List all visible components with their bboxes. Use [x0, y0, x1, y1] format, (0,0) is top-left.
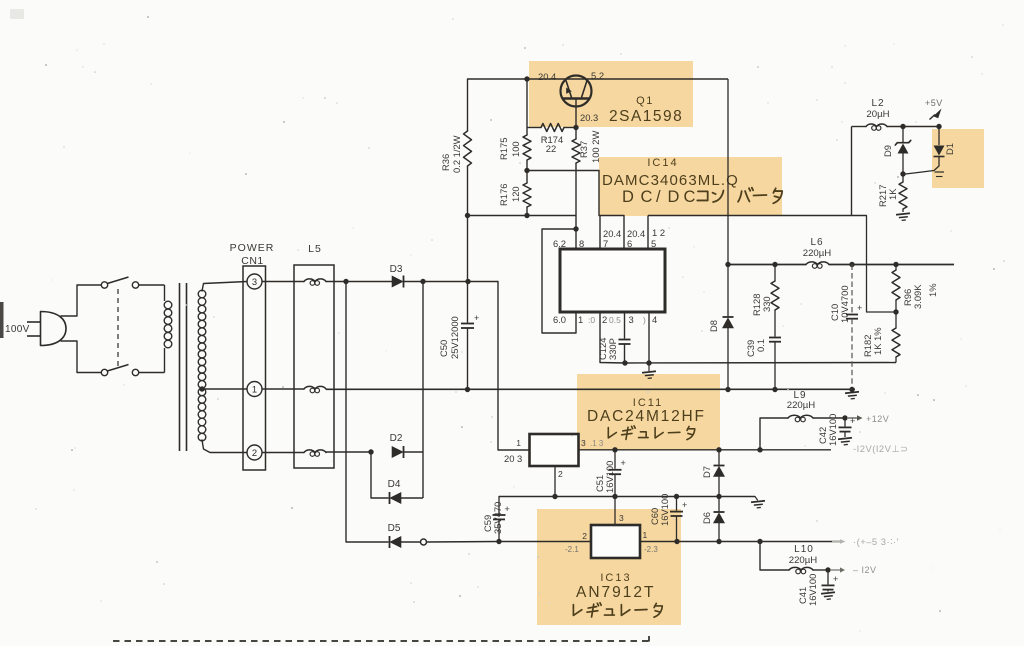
svg-text:AN7912T: AN7912T	[576, 584, 655, 601]
svg-text:R175: R175	[498, 138, 509, 160]
wire divider node to pins 7/6	[527, 171, 624, 216]
svg-text:1: 1	[643, 530, 648, 540]
transformer T1 core	[179, 283, 181, 451]
svg-text:): )	[643, 315, 646, 325]
wire Q1 base down	[575, 99, 577, 128]
wire main rail y389	[326, 388, 855, 390]
diode D2	[392, 447, 403, 458]
arrow +5V off-page	[930, 115, 936, 120]
svg-text:4: 4	[652, 314, 657, 325]
wire pin5 bracket to L2 corner	[648, 215, 867, 217]
svg-text:10V4700: 10V4700	[839, 285, 850, 323]
svg-text:1K: 1K	[887, 188, 898, 200]
svg-text:/: /	[656, 188, 661, 206]
inductor L9	[760, 418, 788, 450]
diode D8	[727, 265, 729, 317]
svg-text:+: +	[850, 416, 855, 426]
inductor L6	[806, 262, 829, 265]
highlight over Q1	[529, 61, 693, 127]
svg-text:0.2 1/2W: 0.2 1/2W	[451, 135, 462, 173]
transistor Q1 2SA1598	[561, 76, 592, 107]
junction C10 bottom	[849, 387, 854, 392]
junction D3 out x423	[420, 279, 425, 284]
svg-text:+: +	[857, 303, 862, 313]
svg-text:– I2V: – I2V	[853, 565, 877, 575]
junction R176 bottom	[524, 213, 529, 218]
wire gnd rail y363 to feedback divider	[625, 362, 896, 365]
power switch S1 lower pole	[77, 372, 101, 374]
svg-text:35V470: 35V470	[492, 502, 503, 534]
ground at C41	[821, 592, 836, 600]
wire switch to transformer primary	[164, 285, 166, 301]
junction +20V node C50	[465, 279, 470, 284]
junction C60 bottom	[674, 539, 679, 544]
svg-text:D: D	[668, 188, 680, 206]
svg-text:R37: R37	[578, 141, 589, 158]
wire x468 top to R36	[467, 79, 469, 131]
resistor R174	[527, 127, 541, 129]
ic IC14 body	[560, 249, 665, 312]
wire riser D2/D4 outputs x423	[422, 282, 424, 499]
svg-text:6.2: 6.2	[553, 238, 566, 249]
wire C39 to rail	[774, 342, 776, 390]
svg-text:R176: R176	[498, 184, 509, 206]
junction Q1 base node	[573, 125, 578, 130]
svg-text:0.5: 0.5	[609, 315, 621, 325]
junction C50 bottom	[465, 387, 470, 392]
choke L5 winding a	[304, 279, 326, 282]
faint arrow -20V rail end	[832, 541, 840, 543]
label regulator katakana IC13	[573, 603, 662, 617]
svg-text:330P: 330P	[607, 338, 618, 360]
junction C51 bottom	[612, 494, 617, 499]
wire -20V rail to C59	[427, 541, 500, 544]
junction R175/R176	[524, 168, 529, 173]
svg-text:IC14: IC14	[647, 157, 678, 169]
junction D6 bottom	[716, 539, 721, 544]
wire CN1-2 to L5	[262, 452, 304, 454]
wire IC11 pin2 down	[554, 466, 556, 497]
wire drop to D4	[371, 452, 388, 498]
svg-text:16V100: 16V100	[604, 461, 615, 493]
svg-text:20 3: 20 3	[504, 453, 522, 464]
diode D4	[390, 493, 401, 504]
junction C59 bottom	[496, 539, 501, 544]
dashed section boundary	[113, 640, 649, 642]
svg-text:2: 2	[558, 469, 563, 479]
resistor R182	[895, 312, 897, 328]
svg-text:+: +	[621, 458, 626, 468]
junction R96 top	[893, 262, 898, 267]
junction C10 top	[849, 262, 854, 267]
svg-text:1: 1	[516, 438, 521, 448]
junction C51 top	[612, 447, 617, 452]
svg-text:5: 5	[651, 238, 656, 249]
junction C41 top	[825, 567, 830, 572]
svg-text:1: 1	[252, 384, 257, 395]
highlight over IC11	[577, 374, 720, 450]
wire CN1-3 to L5	[262, 281, 304, 283]
junction R36 bottom	[465, 213, 470, 218]
svg-text:8: 8	[579, 238, 584, 249]
svg-text:5.2: 5.2	[591, 70, 604, 81]
svg-text:3: 3	[619, 513, 624, 523]
junction R128 top	[772, 262, 777, 267]
svg-text:R36: R36	[440, 154, 451, 171]
highlight over IC13	[537, 509, 681, 625]
svg-text:D4: D4	[388, 479, 401, 490]
wire feedback to pin5 net	[867, 216, 897, 313]
wire C124 to gnd rail	[624, 344, 626, 363]
svg-text:220µH: 220µH	[789, 555, 818, 566]
junction open node -20V	[421, 539, 427, 545]
wire plug to switch	[61, 285, 77, 316]
wire IC14 pin7 riser	[599, 216, 601, 250]
svg-text:3: 3	[581, 438, 586, 448]
svg-text:+12V: +12V	[866, 414, 889, 424]
svg-text:POWER: POWER	[230, 242, 275, 254]
wire +20V to IC11 pin1	[498, 282, 530, 451]
capacitor C41	[827, 570, 829, 584]
ic IC13 body	[591, 525, 640, 558]
wire secondary bottom tap to CN1-2	[202, 440, 247, 453]
svg-text:D2: D2	[390, 433, 403, 444]
wire secondary top tap to CN1-3	[202, 282, 247, 292]
ground at R217	[896, 213, 911, 221]
svg-text:220µH: 220µH	[787, 400, 816, 411]
wire row3 L5 to D3	[326, 281, 392, 283]
junction L9 tap	[757, 447, 762, 452]
wire Q1 collector drop x728	[727, 79, 729, 265]
transformer T1 secondary winding	[198, 290, 206, 298]
resistor R128	[774, 265, 776, 282]
capacitor C39	[769, 337, 781, 339]
junction row3 x346	[343, 279, 348, 284]
svg-text:L2: L2	[871, 98, 884, 109]
resistor R96	[895, 265, 897, 271]
diode D7	[718, 450, 720, 466]
svg-text:DAC24M12HF: DAC24M12HF	[587, 408, 706, 425]
svg-text:3: 3	[252, 276, 257, 287]
wire L2 riser	[851, 127, 853, 216]
svg-text:1%: 1%	[927, 283, 938, 297]
svg-text:-I2V(I2V⊥⊃: -I2V(I2V⊥⊃	[853, 443, 908, 454]
svg-text:1K 1%: 1K 1%	[872, 327, 883, 355]
diode D3	[392, 276, 403, 287]
svg-text:D5: D5	[388, 523, 401, 534]
junction C60 top	[674, 494, 679, 499]
svg-text:3.09K: 3.09K	[912, 284, 923, 309]
wire IC14 pin8 loop to pin1	[542, 229, 576, 333]
svg-text:6.0: 6.0	[553, 314, 566, 325]
svg-text:20.3: 20.3	[580, 112, 598, 123]
junction pin2/pin3	[622, 360, 627, 365]
svg-text:100 2W: 100 2W	[590, 131, 601, 163]
arrow -12V	[831, 569, 840, 571]
wire main output rail y264	[728, 264, 806, 266]
wire IC14 pin4	[648, 312, 650, 363]
capacitor C51	[614, 450, 616, 469]
capacitor C59	[498, 497, 500, 515]
capacitor C42	[844, 418, 846, 426]
junction D7 top	[716, 447, 721, 452]
wire row2 L5 to D2	[326, 451, 371, 453]
wire +20V node to C50	[467, 282, 469, 323]
svg-text:6: 6	[627, 238, 632, 249]
resistor R176	[526, 171, 528, 184]
svg-text:2: 2	[252, 447, 257, 458]
wire gnd rail y496	[499, 496, 755, 498]
svg-text:D1: D1	[944, 143, 955, 155]
svg-text:25V12000: 25V12000	[449, 316, 460, 359]
svg-text:20.4: 20.4	[627, 228, 645, 239]
svg-text:+: +	[505, 504, 510, 514]
wire -20V rail to IC13 pin2	[499, 541, 591, 543]
wire IC14 pin5 riser	[647, 216, 649, 250]
junction D7 D6 midpoint	[716, 494, 721, 499]
wire D1 cathode to D9 node	[906, 166, 940, 174]
junction D1 top	[936, 124, 941, 129]
wire R37 to IC14 pin8	[575, 163, 577, 249]
svg-text:1 2: 1 2	[652, 227, 665, 238]
ground at C42	[838, 438, 853, 446]
svg-text:Q1: Q1	[636, 95, 654, 107]
scan edge smudge	[0, 302, 4, 338]
wire D4 to riser	[401, 497, 423, 499]
LED D1	[938, 127, 940, 146]
connector CN1 pin 2	[247, 445, 262, 460]
svg-text:-2.1: -2.1	[565, 545, 579, 554]
wire IC11 out rail y449	[579, 449, 832, 451]
capacitor C50	[461, 323, 474, 325]
svg-text:C50: C50	[438, 340, 449, 357]
inductor L2	[852, 126, 867, 128]
ground at rail y496	[755, 497, 758, 501]
junction D8 bottom rail	[725, 387, 730, 392]
AC plug 100V	[41, 312, 67, 346]
wire R36 to rail y215	[467, 166, 469, 216]
junction D9 anode R217	[900, 171, 905, 176]
svg-text:IC13: IC13	[600, 572, 631, 584]
svg-text:20.4: 20.4	[538, 71, 556, 82]
svg-text:D7: D7	[701, 466, 712, 478]
connector CN1 pin 1	[247, 382, 262, 397]
capacitor C124	[619, 339, 631, 341]
junction pin2 gnd rail	[552, 494, 557, 499]
svg-text:22: 22	[546, 143, 556, 154]
svg-text:D: D	[622, 188, 634, 206]
svg-text:C: C	[641, 188, 653, 206]
svg-text:+: +	[682, 500, 687, 510]
junction pin8 loop	[573, 226, 578, 231]
junction L10 tap	[757, 539, 762, 544]
svg-text:+: +	[833, 574, 838, 584]
svg-text:16V100: 16V100	[827, 414, 838, 446]
junction x728 rail	[725, 262, 730, 267]
svg-text:7: 7	[603, 238, 608, 249]
wire D2 to riser	[404, 451, 424, 453]
resistor R217	[902, 174, 904, 182]
svg-text:220µH: 220µH	[803, 248, 832, 259]
switch gang dashed link	[117, 289, 119, 368]
diode D6	[718, 497, 720, 513]
ic IC11 body	[530, 434, 579, 466]
resistor R37	[575, 128, 577, 140]
svg-text:16V100: 16V100	[807, 574, 818, 606]
svg-text:L10: L10	[794, 544, 814, 555]
ground at C10	[851, 390, 853, 392]
svg-text:+: +	[474, 313, 479, 323]
svg-text:20µH: 20µH	[866, 109, 889, 120]
wire IC14 pin3 to C124	[624, 312, 626, 339]
wire center tap to CN1-1	[202, 388, 247, 390]
svg-text:DAMC34063ML.Q: DAMC34063ML.Q	[602, 172, 739, 189]
diode D5	[390, 537, 401, 548]
highlight over IC14	[599, 157, 782, 216]
svg-text:D6: D6	[701, 512, 712, 524]
choke L5 winding c	[304, 450, 326, 453]
svg-text:L5: L5	[308, 243, 322, 255]
wire IC13 pin3 riser	[614, 497, 616, 526]
svg-text:100V: 100V	[5, 324, 30, 335]
svg-text:C: C	[684, 188, 696, 206]
svg-text:·(+–5 3·∶·′: ·(+–5 3·∶·′	[853, 536, 899, 547]
svg-text:-2.3: -2.3	[644, 545, 658, 554]
zener diode D9	[902, 127, 904, 143]
wire top rail y79	[467, 78, 728, 80]
wire x468 down to +20V node	[467, 216, 469, 282]
wire rail after L6	[829, 264, 954, 266]
junction C42 top	[842, 415, 847, 420]
resistor R175	[526, 128, 528, 136]
svg-text:120: 120	[510, 186, 521, 202]
choke L5 winding b	[304, 386, 326, 389]
capacitor C10 wire	[851, 265, 853, 314]
svg-text:.1 3: .1 3	[590, 439, 604, 448]
inductor L10	[760, 542, 789, 571]
svg-text:D8: D8	[708, 320, 719, 332]
wire IC14 pin2	[600, 312, 625, 363]
svg-text:L6: L6	[810, 237, 823, 248]
capacitor C60	[676, 497, 678, 511]
wire L2 to +5V	[887, 126, 941, 128]
label regulator katakana IC11	[608, 426, 695, 440]
connector CN1 body	[243, 266, 266, 470]
svg-text::0: :0	[588, 315, 595, 325]
highlight over D1 LED	[932, 129, 984, 188]
resistor R36	[464, 131, 472, 166]
transformer T1 primary winding	[164, 301, 172, 309]
wire rail y215 left	[468, 215, 577, 217]
svg-text:100: 100	[510, 141, 521, 157]
wire CN1-1 to L5	[262, 388, 304, 390]
wire D3 to +20V node	[404, 281, 499, 283]
connector CN1 pin 3	[247, 274, 262, 289]
wire IC14 pin6 riser	[623, 216, 625, 250]
svg-text:16V100: 16V100	[659, 494, 670, 526]
scan speckles	[336, 102, 338, 104]
junction D9 top	[900, 124, 905, 129]
svg-text:0.1: 0.1	[755, 339, 766, 352]
svg-text:2SA1598: 2SA1598	[609, 108, 683, 125]
junction C39 bottom	[772, 387, 777, 392]
wire IC13 out	[640, 541, 842, 543]
svg-text:D9: D9	[882, 145, 893, 157]
junction row2 feed D4	[368, 449, 373, 454]
wire C50 to ground rail	[467, 328, 469, 390]
svg-text:330: 330	[761, 296, 772, 312]
wire D5 to node	[401, 541, 421, 543]
junction pin4	[646, 360, 651, 365]
wire drop row3 to D5 x346	[346, 282, 388, 543]
junction secondary center tap	[199, 386, 204, 391]
junction feedback node	[893, 309, 898, 314]
svg-text:D3: D3	[390, 264, 403, 275]
svg-text:+5V: +5V	[925, 98, 943, 108]
svg-text:20.4: 20.4	[603, 228, 621, 239]
svg-text:CN1: CN1	[241, 255, 264, 267]
svg-text:1: 1	[578, 314, 583, 325]
junction x527 top rail	[524, 76, 529, 81]
ground at IC14 pin4	[648, 363, 650, 371]
svg-text:2: 2	[582, 531, 587, 541]
wire base divider feed x527	[526, 79, 528, 128]
svg-text:2: 2	[602, 314, 607, 325]
choke L5 body	[294, 265, 334, 468]
power switch S1 upper pole	[77, 284, 101, 286]
arrow +12V	[848, 417, 857, 419]
